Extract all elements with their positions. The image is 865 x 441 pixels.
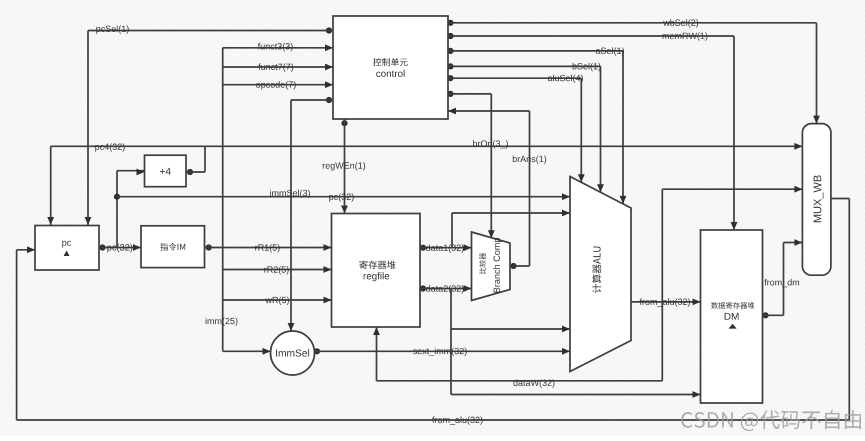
wire regWEn(1) from control to regfile [323, 119, 365, 215]
wire pc4(32) from +4 adder to pc and MUX_WB [47, 143, 802, 226]
control unit: control [333, 16, 448, 119]
wire rR2(5) into regfile [223, 266, 332, 274]
wire brOn(3) from control to Branch Comp [447, 91, 508, 238]
wire funct3(3) into control [223, 43, 333, 51]
register file: regfile [332, 214, 421, 328]
wire opcode(7) into control [223, 81, 333, 89]
wire wR(5) into regfile [223, 297, 332, 305]
wire funct7(7) into control [223, 63, 333, 71]
wire data2(32) from regfile to Branch Comp, ALU and DM dataW [420, 285, 701, 398]
pc register [35, 226, 99, 271]
mux MUX_WB [802, 124, 831, 276]
data memory DM [701, 230, 763, 403]
wire brAns(1) from Branch Comp to control [448, 108, 546, 270]
wire writeback loop from MUX_WB output to pc [17, 199, 850, 425]
instruction memory IM [141, 226, 205, 268]
branch comparator: Branch Comp [472, 232, 511, 301]
wire memRW(1) from control to DM [447, 32, 737, 231]
wire pc riser: pc to +4 and pc(32) to ALU [114, 169, 570, 249]
wire imm(25) into ImmSel [206, 318, 271, 355]
wire immSel(3) from control to ImmSel [270, 97, 333, 331]
wire aSel(1) from control to ALU [447, 47, 626, 204]
wire from_alu(32) from ALU to DM, MUX_WB and regfile dataW [373, 186, 802, 388]
wire sext_imm(32) from ImmSel to ALU [314, 348, 570, 356]
watermark CSDN @代码不自由 [681, 410, 861, 431]
wire bSel(1) from control to ALU [447, 63, 604, 192]
immediate generator ImmSel [271, 331, 315, 375]
wire pc(32) from pc to instruction memory IM [99, 244, 141, 253]
wire wbSel(2) from control to MUX_WB [447, 19, 820, 124]
wire instruction bus from IM output [205, 48, 332, 352]
ALU [570, 177, 631, 372]
wire pcSel(1) from control to pc mux select [85, 25, 333, 226]
wire data1(32) from regfile to Branch Comp and ALU [420, 210, 570, 253]
wire aluSel(4) from control to ALU [447, 75, 584, 183]
wire from_dm from DM to MUX_WB [762, 239, 802, 318]
+4 adder [145, 155, 187, 187]
